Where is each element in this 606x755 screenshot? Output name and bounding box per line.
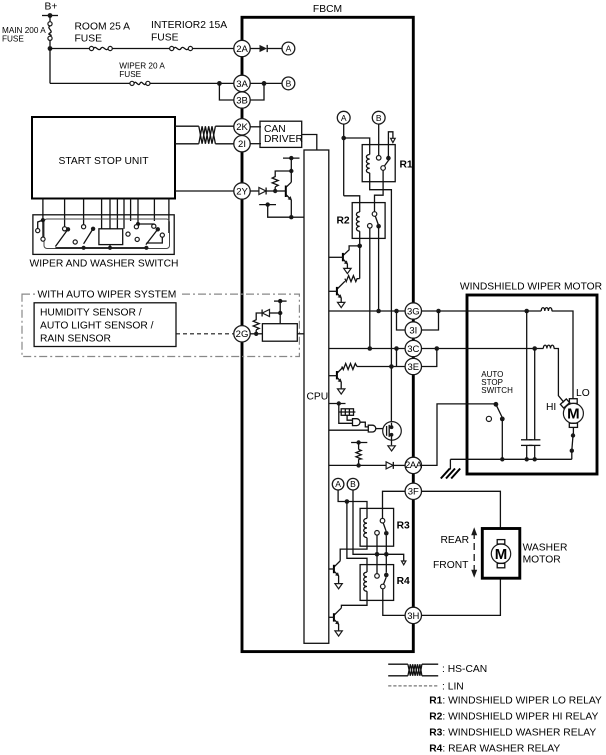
svg-text:FUSE: FUSE: [75, 34, 103, 45]
wire A to R1 coil: [344, 138, 370, 155]
supply tick 2G: [274, 299, 287, 313]
svg-text:START STOP UNIT: START STOP UNIT: [58, 156, 149, 167]
connector B mid: [372, 111, 385, 124]
svg-text:FUSE: FUSE: [2, 34, 24, 43]
svg-text:R1: R1: [400, 160, 413, 171]
node collector 2Y: [289, 169, 293, 173]
svg-text:2I: 2I: [238, 139, 246, 150]
R1 contact bottom: [381, 166, 386, 171]
text AUTO STOP SWITCH: [481, 370, 513, 395]
resistor 2AA pull: [356, 449, 361, 459]
brush LO: [569, 399, 577, 404]
wire R1 coil bottom to long vertical: [370, 173, 392, 423]
connector B low: [347, 478, 359, 490]
R3 contact top: [380, 518, 385, 523]
supply tick resistor 2AA: [351, 440, 367, 449]
R3 contact fixed: [375, 531, 380, 536]
svg-text:R4: REAR WASHER RELAY: R4: REAR WASHER RELAY: [429, 744, 560, 755]
node 3E dot long vertical: [389, 364, 394, 369]
WIPER AND WASHER SWITCH box: [30, 215, 179, 270]
logic gate 1: [353, 419, 361, 426]
wire HS-CAN twisted pair to 2K/2I: [175, 126, 234, 144]
wire switch bottom bus: [55, 247, 146, 249]
HUMIDITY SENSOR box: [34, 303, 176, 347]
node R2 coil / Q1 collector: [357, 244, 362, 249]
svg-text:B+: B+: [45, 2, 58, 13]
arrow hook low: [402, 561, 406, 565]
wire B+ down: [49, 16, 51, 22]
wire B low to relay commons: [353, 490, 404, 561]
motor M wiper: [563, 403, 583, 427]
WITH AUTO WIPER SYSTEM dashed box: [22, 289, 299, 357]
wire CAN driver to CPU: [302, 135, 317, 151]
wire R4 coil bottom to Q5: [341, 591, 367, 608]
connector A low: [332, 478, 344, 490]
wire 2AA to auto stop switch: [422, 404, 496, 466]
switch contact circles: [36, 224, 165, 244]
transistor Q 2Y: [278, 171, 292, 217]
node bus dots: [82, 246, 86, 250]
FBCM box: [242, 4, 413, 652]
wire switch right link2: [146, 237, 162, 243]
wire switch right link: [138, 223, 154, 225]
svg-text:B: B: [376, 113, 382, 123]
svg-text:2A: 2A: [236, 44, 248, 55]
svg-text:WITH AUTO WIPER SYSTEM: WITH AUTO WIPER SYSTEM: [38, 289, 177, 300]
wire emitter to CPU: [291, 216, 304, 218]
pin 3A: [234, 75, 250, 91]
svg-text:3C: 3C: [407, 344, 419, 355]
pin 3B: [234, 92, 250, 108]
svg-text:B: B: [350, 479, 356, 489]
legend HS-CAN symbol: [388, 664, 487, 676]
WINDSHIELD WIPER MOTOR box: [460, 282, 602, 475]
wire R2 common to 3G line: [378, 226, 380, 311]
svg-text:R4: R4: [397, 576, 410, 587]
R3 lever: [383, 523, 386, 531]
ground triangle mosfet: [388, 446, 395, 451]
wire 3E line: [357, 366, 405, 368]
node row dots: [375, 552, 380, 557]
wire motor bottom bus: [450, 458, 571, 460]
coil R3: [364, 518, 367, 537]
svg-text:RAIN SENSOR: RAIN SENSOR: [40, 334, 111, 345]
wire 2K to CAN driver: [250, 126, 261, 128]
node 2G junction: [254, 332, 258, 336]
wire R1 hook arrow: [388, 132, 395, 158]
pin 3E: [405, 358, 421, 374]
R2 common node: [376, 224, 381, 229]
wire 3G line: [329, 310, 405, 312]
pin 2K: [234, 119, 250, 135]
R4 lever: [384, 577, 387, 584]
svg-text:3E: 3E: [407, 362, 419, 373]
resistor Q2 base: [345, 276, 360, 282]
wire 2I to CAN driver: [250, 143, 261, 145]
node A split: [341, 136, 346, 141]
oscillator block: [339, 409, 355, 420]
wire switch drop lines: [43, 199, 169, 234]
svg-text:FBCM: FBCM: [313, 4, 342, 15]
auto stop switch: [486, 402, 504, 459]
svg-text:FRONT: FRONT: [433, 560, 469, 571]
wire R3 coil bottom to Q4: [340, 538, 367, 561]
R1 contact fixed: [376, 156, 381, 161]
R2 lever: [375, 216, 378, 224]
wire 3A to B: [250, 82, 282, 84]
R1 lever: [384, 159, 389, 166]
pin 2AA: [405, 457, 423, 473]
wire R4 bottom contact to 3H: [383, 589, 405, 616]
resistor 3E: [342, 364, 357, 370]
svg-text:WINDSHIELD WIPER MOTOR: WINDSHIELD WIPER MOTOR: [460, 282, 602, 293]
svg-text:3H: 3H: [407, 611, 419, 622]
node 3C dots: [368, 346, 373, 351]
wire 3I inner hook: [397, 311, 405, 330]
connector B top: [282, 77, 295, 90]
pin 3C: [405, 340, 421, 356]
wire CPU watchdog node: [329, 403, 346, 405]
rain sensor interface box: [262, 313, 304, 341]
relay R2: [337, 203, 386, 239]
wire 3H to washer motor: [422, 578, 501, 615]
R2 contact top: [372, 212, 377, 217]
svg-text:SWITCH: SWITCH: [481, 386, 513, 395]
switch lever 2: [84, 227, 96, 244]
wire 3C to motor: [422, 348, 544, 350]
svg-text:2Y: 2Y: [236, 186, 248, 197]
R2 contact fixed: [368, 224, 373, 229]
svg-text:3G: 3G: [407, 306, 420, 317]
inductor HI: [543, 345, 554, 348]
arrow REAR FRONT: [433, 527, 477, 577]
wire A down: [343, 124, 345, 196]
svg-text:R1: WINDSHIELD WIPER LO RELAY: R1: WINDSHIELD WIPER LO RELAY: [429, 696, 602, 707]
svg-text:: LIN: : LIN: [442, 682, 464, 693]
relay R4: [360, 565, 410, 601]
node junction B+ rail: [48, 46, 53, 51]
svg-text:R2: WINDSHIELD WIPER HI RELAY: R2: WINDSHIELD WIPER HI RELAY: [429, 712, 598, 723]
pin 2G: [234, 326, 250, 342]
wire switch left link: [38, 220, 43, 228]
fuse INTERIOR2 15A FUSE: [151, 20, 227, 50]
wire LO to motor: [552, 311, 573, 399]
wire unit rect to bus: [109, 245, 111, 248]
wire Q1 node down: [359, 246, 361, 279]
node dot left of 3A: [217, 81, 222, 86]
wire 3A-3B right loop: [250, 83, 264, 100]
motor M washer: [491, 540, 510, 568]
wire 3A-3B left loop: [219, 83, 233, 100]
svg-text:FUSE: FUSE: [119, 70, 141, 79]
wire to 2A: [193, 48, 234, 50]
diode to A: [250, 45, 282, 52]
supply tick 2Y: [283, 156, 300, 171]
svg-text:WASHER: WASHER: [523, 543, 568, 554]
wire A low to R4 coil: [347, 502, 367, 573]
pin 2Y: [234, 183, 250, 199]
wire R3 common to R4 common: [385, 536, 387, 573]
node 3G dots: [376, 309, 381, 314]
svg-text:A: A: [335, 479, 341, 489]
logic gate 2: [368, 425, 375, 432]
svg-text:DRIVER: DRIVER: [264, 134, 303, 145]
wire 3C line: [329, 348, 405, 350]
wire 3E outer hook: [422, 349, 437, 367]
brush HI: [560, 399, 569, 408]
relay R3: [360, 508, 410, 546]
svg-text:MOTOR: MOTOR: [523, 555, 561, 566]
svg-text:: HS-CAN: : HS-CAN: [442, 664, 487, 675]
CPU box: [304, 150, 329, 643]
wire LIN dashed to 2G: [176, 333, 234, 335]
svg-text:2AA: 2AA: [405, 460, 423, 471]
svg-text:REAR: REAR: [441, 535, 470, 546]
switch internal route outline: [44, 219, 170, 249]
pin 3G: [405, 303, 421, 319]
switch lever 3: [146, 227, 160, 245]
capacitor C1: [521, 311, 532, 459]
coil R4: [364, 572, 367, 591]
svg-text:R3: R3: [397, 521, 410, 532]
wire motor bottom switch: [570, 427, 576, 459]
relay R1: [362, 145, 413, 182]
capacitor C2: [529, 349, 540, 460]
node A low split: [345, 499, 350, 504]
svg-text:R3: WINDSHIELD WASHER RELAY: R3: WINDSHIELD WASHER RELAY: [429, 728, 596, 739]
wire 3F to washer motor: [422, 491, 501, 528]
WASHER MOTOR box: [482, 529, 567, 579]
wire 2G to sensor interface: [250, 333, 262, 335]
R3 common node: [384, 531, 389, 536]
svg-text:A: A: [341, 113, 347, 123]
svg-text:R2: R2: [337, 216, 350, 227]
pin 2I: [234, 136, 250, 152]
svg-text:M: M: [495, 546, 508, 563]
pin 3I: [405, 322, 421, 338]
coil R2: [356, 212, 359, 231]
wire: [112, 48, 169, 50]
wire to 3A: [150, 82, 234, 84]
transistor Q2: [329, 281, 345, 307]
mosfet U1: [383, 422, 402, 446]
wire 3G to motor: [422, 310, 542, 312]
wire gate1 to gate2: [360, 422, 368, 427]
svg-text:AUTO LIGHT SENSOR /: AUTO LIGHT SENSOR /: [40, 321, 154, 332]
coil R1: [366, 155, 369, 173]
wire switch link2: [42, 220, 44, 237]
node dot right of 3A: [262, 81, 267, 86]
diode 2AA: [386, 462, 405, 469]
wire R3 fixed to R4 contact: [376, 535, 378, 574]
wire gate2 to mosfet: [376, 428, 387, 430]
wire 3E inner hook: [396, 349, 398, 367]
transistor Q1: [329, 246, 360, 274]
R1 common node: [386, 156, 391, 161]
fuse ROOM 25 A FUSE: [75, 22, 131, 51]
svg-text:3I: 3I: [409, 325, 417, 336]
wire R2 coil bottom: [359, 231, 361, 246]
svg-text:3A: 3A: [236, 79, 248, 90]
transistor Q3: [329, 367, 345, 395]
svg-text:HUMIDITY SENSOR /: HUMIDITY SENSOR /: [40, 308, 142, 319]
switch lever 1: [55, 227, 70, 246]
R4 contact fixed: [375, 574, 380, 579]
wire unit to 2Y: [175, 190, 234, 192]
node dot right drop: [136, 222, 140, 226]
node 2AA resistor dot: [356, 463, 360, 467]
legend LIN symbol: [388, 682, 464, 693]
connector A top: [282, 42, 295, 55]
wire fuse to junction: [49, 40, 51, 48]
ground wiper motor: [441, 459, 460, 478]
wire R1 contact to R2 contact: [375, 170, 384, 211]
node B+: [42, 2, 58, 18]
svg-text:3B: 3B: [236, 95, 248, 106]
fuse MAIN 200 A FUSE: [2, 22, 52, 44]
wire 3F to R3: [383, 491, 406, 518]
svg-text:3F: 3F: [408, 487, 419, 498]
CAN DRIVER box: [260, 121, 303, 147]
resistor 2G: [253, 313, 262, 334]
svg-text:WIPER AND WASHER SWITCH: WIPER AND WASHER SWITCH: [30, 259, 179, 270]
wire CPU to gate2: [329, 429, 368, 431]
R4 contact bottom: [381, 584, 386, 589]
resistor 2Y pullup: [272, 171, 291, 191]
node diode junction: [278, 311, 282, 315]
node emitter junction: [289, 215, 293, 219]
wire to WIPER fuse: [50, 82, 130, 84]
svg-text:B: B: [286, 79, 292, 89]
pin 2A: [234, 40, 250, 56]
pin 3F: [405, 483, 421, 499]
START STOP UNIT box: [32, 117, 175, 199]
wire A to R2 coil: [344, 196, 360, 212]
connector A mid: [337, 111, 350, 124]
switch internal unit rect: [99, 229, 123, 245]
transistor Q4: [329, 561, 342, 589]
fuse WIPER 20 A FUSE: [119, 62, 165, 86]
svg-text:CPU: CPU: [307, 392, 329, 403]
wire to ROOM fuse: [50, 48, 89, 50]
svg-text:HI: HI: [546, 402, 556, 413]
transistor Q5: [329, 608, 342, 636]
diode 2G: [262, 310, 280, 317]
diode 2Y input: [250, 188, 277, 195]
svg-text:M: M: [567, 405, 580, 422]
supply tick left: [259, 202, 291, 217]
svg-text:LO: LO: [576, 388, 590, 399]
svg-text:FUSE: FUSE: [151, 32, 179, 43]
wire B to R1 contact: [378, 124, 380, 155]
inductor LO: [541, 308, 552, 311]
svg-text:2K: 2K: [236, 122, 248, 133]
svg-text:A: A: [286, 44, 292, 54]
node bus dots: [500, 457, 504, 461]
wire HI to motor: [554, 349, 564, 403]
svg-text:2G: 2G: [236, 329, 249, 340]
svg-text:INTERIOR2 15A: INTERIOR2 15A: [151, 20, 227, 31]
wire A low to R3 coil: [338, 490, 367, 518]
wire R2 fixed contact to 3C line: [369, 228, 371, 348]
R4 common node: [384, 573, 389, 578]
svg-text:ROOM 25 A: ROOM 25 A: [75, 22, 131, 33]
node dot left drop: [41, 218, 45, 222]
wire 2AA line: [329, 464, 386, 466]
wire 3I outer hook: [422, 311, 439, 330]
pin 3H: [405, 607, 421, 623]
node 2Y junction: [273, 189, 277, 193]
wire B+ rail down: [49, 49, 51, 84]
